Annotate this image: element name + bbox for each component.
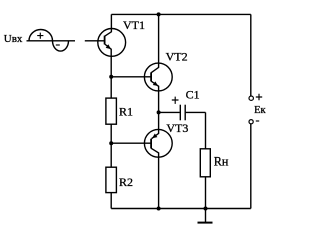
svg-text:VT1: VT1 [123, 18, 145, 32]
svg-text:R1: R1 [119, 105, 133, 119]
svg-text:R2: R2 [119, 175, 133, 189]
svg-text:Uвх: Uвх [4, 33, 23, 45]
svg-text:Eк: Eк [254, 105, 266, 116]
svg-text:VT2: VT2 [166, 50, 188, 64]
svg-text:C1: C1 [186, 87, 200, 101]
svg-text:Rн: Rн [214, 155, 229, 169]
svg-text:VT3: VT3 [166, 121, 188, 135]
